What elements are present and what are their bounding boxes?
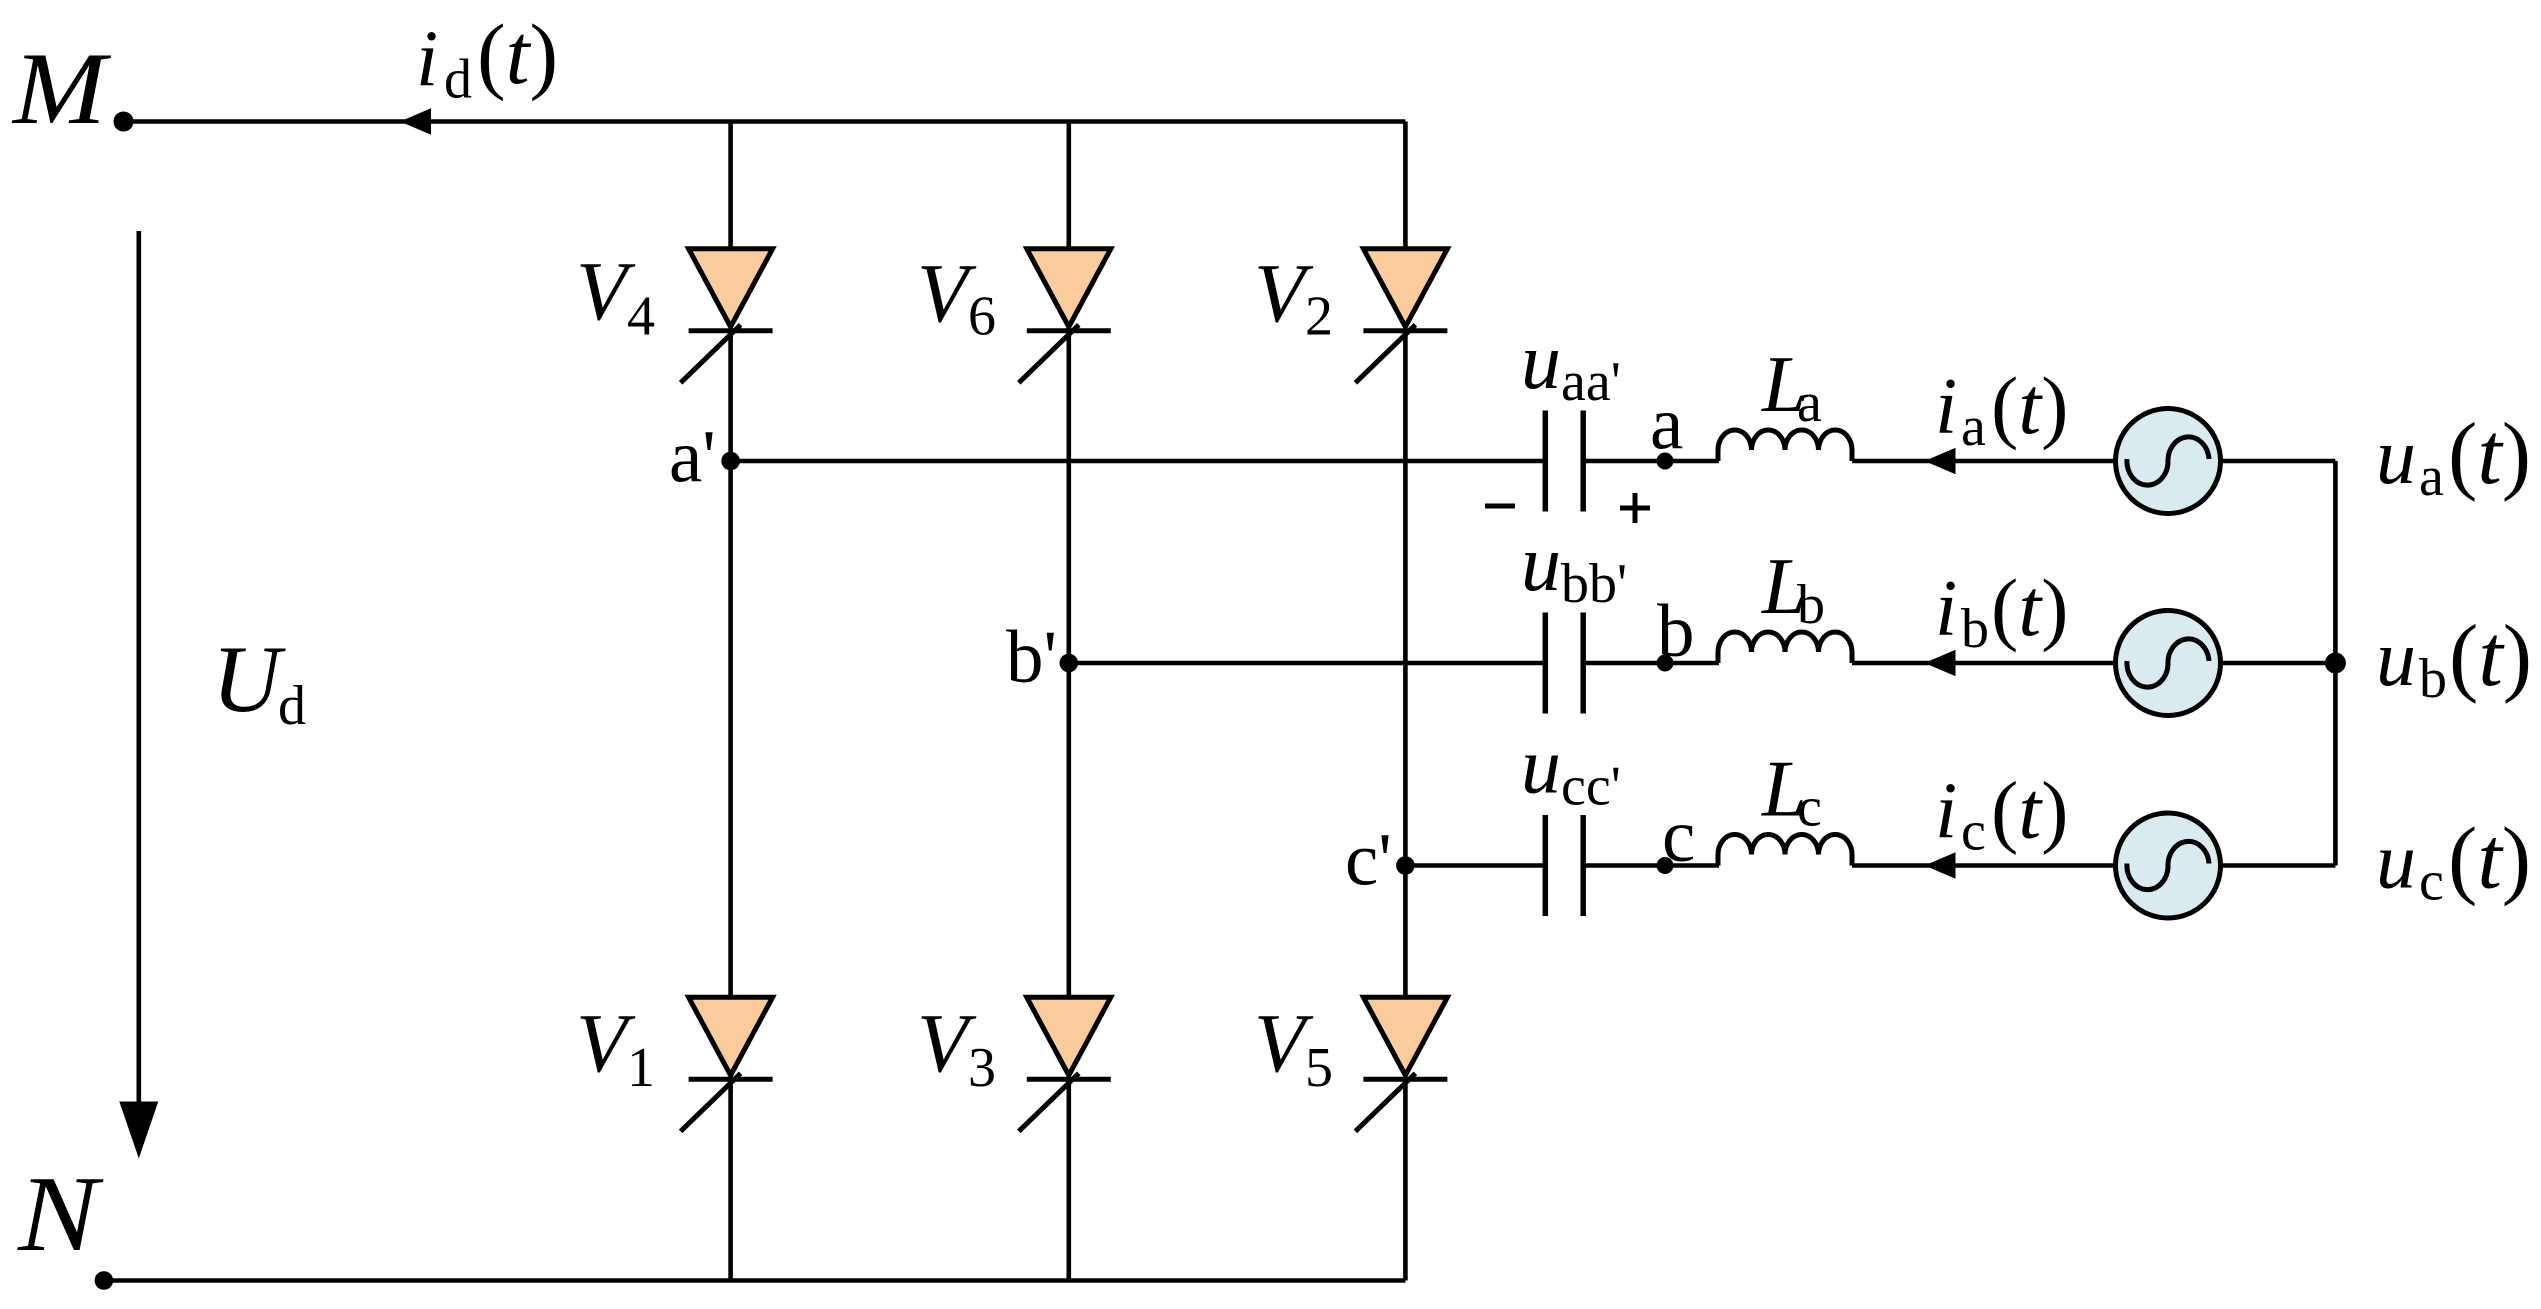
inductor La (1718, 430, 1852, 461)
wire right bus (2333, 461, 2338, 866)
label ucc' (1521, 723, 1621, 818)
label V5 (1254, 997, 1333, 1099)
node c' (1396, 856, 1415, 875)
label ic(t) (1935, 765, 2068, 863)
svg-text:c: c (2419, 851, 2444, 913)
svg-text:i: i (1935, 565, 1957, 653)
node b' (1060, 654, 1079, 673)
node M (114, 112, 134, 132)
arrow id (400, 108, 431, 135)
capacitor ubb' (1545, 613, 1583, 714)
wire leg2 mid (1067, 331, 1072, 999)
svg-text:c: c (1961, 801, 1986, 863)
label uc(t) (2376, 811, 2531, 913)
svg-text:bb': bb' (1561, 553, 1627, 615)
svg-text:(t): (t) (1991, 562, 2068, 653)
label ub(t) (2376, 608, 2532, 710)
arrow ib (1925, 650, 1956, 677)
svg-text:d: d (444, 48, 472, 110)
label id(t) (416, 6, 558, 110)
svg-text:N: N (17, 1155, 105, 1274)
svg-text:b: b (1797, 574, 1825, 636)
svg-text:b': b' (1006, 616, 1057, 699)
label ia(t) (1935, 360, 2068, 458)
wire leg1 anode V4 (728, 122, 733, 251)
svg-text:u: u (2376, 413, 2416, 501)
wire inductor to source c (1852, 863, 2116, 868)
wire source a to bus (2221, 459, 2336, 464)
label V3 (917, 997, 996, 1099)
thyristor V6 (1019, 249, 1111, 383)
arrow ia (1925, 448, 1956, 475)
svg-text:i: i (1935, 363, 1957, 451)
svg-text:(t): (t) (1991, 765, 2068, 856)
label La (1761, 341, 1822, 434)
thyristor V4 (681, 249, 773, 383)
wire source b to bus (2221, 661, 2336, 666)
svg-text:a: a (2419, 446, 2444, 508)
wire b' to capacitor (1069, 661, 1546, 666)
label Ud (212, 626, 306, 737)
svg-text:4: 4 (627, 286, 655, 348)
node ub junction (2325, 653, 2346, 674)
minus sign (1485, 504, 1515, 509)
svg-text:a: a (1961, 396, 1986, 458)
wire capacitor to inductor b (1583, 661, 1719, 666)
svg-text:3: 3 (968, 1037, 996, 1099)
inductor Lc (1718, 835, 1852, 866)
svg-text:U: U (212, 626, 286, 732)
svg-text:2: 2 (1305, 286, 1333, 348)
source uc (2116, 813, 2221, 918)
svg-text:u: u (1521, 723, 1561, 811)
node c (1657, 857, 1674, 874)
svg-text:6: 6 (968, 286, 996, 348)
source ua (2116, 409, 2221, 514)
source ub (2116, 611, 2221, 716)
capacitor ucc' (1545, 815, 1583, 916)
label V2 (1254, 247, 1333, 348)
svg-text:(t): (t) (2448, 406, 2531, 503)
svg-text:(t): (t) (2448, 811, 2531, 908)
wire capacitor to inductor (1583, 459, 1719, 464)
svg-text:c': c' (1345, 819, 1392, 902)
svg-text:b: b (2419, 648, 2447, 710)
wire capacitor to inductor c (1583, 863, 1719, 868)
wire Ud reference line (137, 231, 142, 1103)
label ua(t) (2376, 406, 2531, 508)
svg-text:b: b (1657, 590, 1695, 673)
node a (1657, 453, 1674, 470)
wire leg3 cathode V5 (1403, 1079, 1408, 1280)
wire leg1 mid (728, 331, 733, 999)
svg-text:aa': aa' (1561, 351, 1621, 413)
thyristor V3 (1019, 997, 1111, 1131)
label uaa' (1521, 318, 1621, 413)
svg-text:a: a (1650, 383, 1683, 466)
svg-text:d: d (278, 675, 306, 737)
label V1 (576, 997, 655, 1099)
node b (1657, 655, 1674, 672)
wire leg3 anode V2 (1403, 122, 1408, 251)
thyristor V5 (1355, 997, 1447, 1131)
wire leg2 anode V6 (1067, 122, 1072, 251)
inductor Lb (1718, 632, 1852, 663)
svg-text:(t): (t) (2449, 608, 2532, 705)
svg-text:b: b (1961, 598, 1989, 660)
label Lb (1761, 543, 1825, 636)
wire source c to bus (2221, 863, 2336, 868)
svg-text:c: c (1662, 795, 1695, 878)
svg-text:u: u (2376, 615, 2416, 703)
thyristor V2 (1355, 249, 1447, 383)
svg-text:1: 1 (627, 1037, 655, 1099)
wire c' to capacitor (1405, 863, 1545, 868)
node a' (721, 452, 740, 471)
node N (95, 1271, 114, 1290)
wire inductor to source a (1852, 459, 2116, 464)
svg-text:(t): (t) (1991, 360, 2068, 451)
capacitor uaa' (1545, 411, 1583, 512)
label ib(t) (1935, 562, 2068, 660)
svg-text:a: a (1797, 372, 1822, 434)
wire a' to capacitor (731, 459, 1546, 464)
svg-text:cc': cc' (1561, 756, 1621, 818)
wire top DC bus M (124, 119, 1406, 124)
svg-text:u: u (1521, 520, 1561, 608)
wire leg3 mid (1403, 331, 1408, 999)
svg-text:u: u (1521, 318, 1561, 406)
svg-text:5: 5 (1305, 1037, 1333, 1099)
label Lc (1761, 746, 1822, 839)
svg-text:i: i (1935, 768, 1957, 856)
arrow ic (1925, 852, 1956, 879)
svg-text:i: i (416, 15, 438, 103)
svg-text:M: M (11, 32, 112, 146)
label ubb' (1521, 520, 1627, 615)
svg-text:a': a' (669, 416, 716, 499)
label V4 (576, 245, 655, 348)
wire inductor to source b (1852, 661, 2116, 666)
svg-text:c: c (1797, 777, 1822, 839)
plus sign (1620, 493, 1650, 523)
label V6 (917, 247, 996, 348)
wire leg2 cathode V3 (1067, 1079, 1072, 1280)
thyristor V1 (681, 997, 773, 1131)
wire leg1 cathode V1 (728, 1079, 733, 1280)
wire bottom DC bus N (104, 1278, 1406, 1283)
svg-text:(t): (t) (477, 6, 558, 102)
arrow Ud down (119, 1102, 158, 1159)
svg-text:u: u (2376, 818, 2416, 906)
